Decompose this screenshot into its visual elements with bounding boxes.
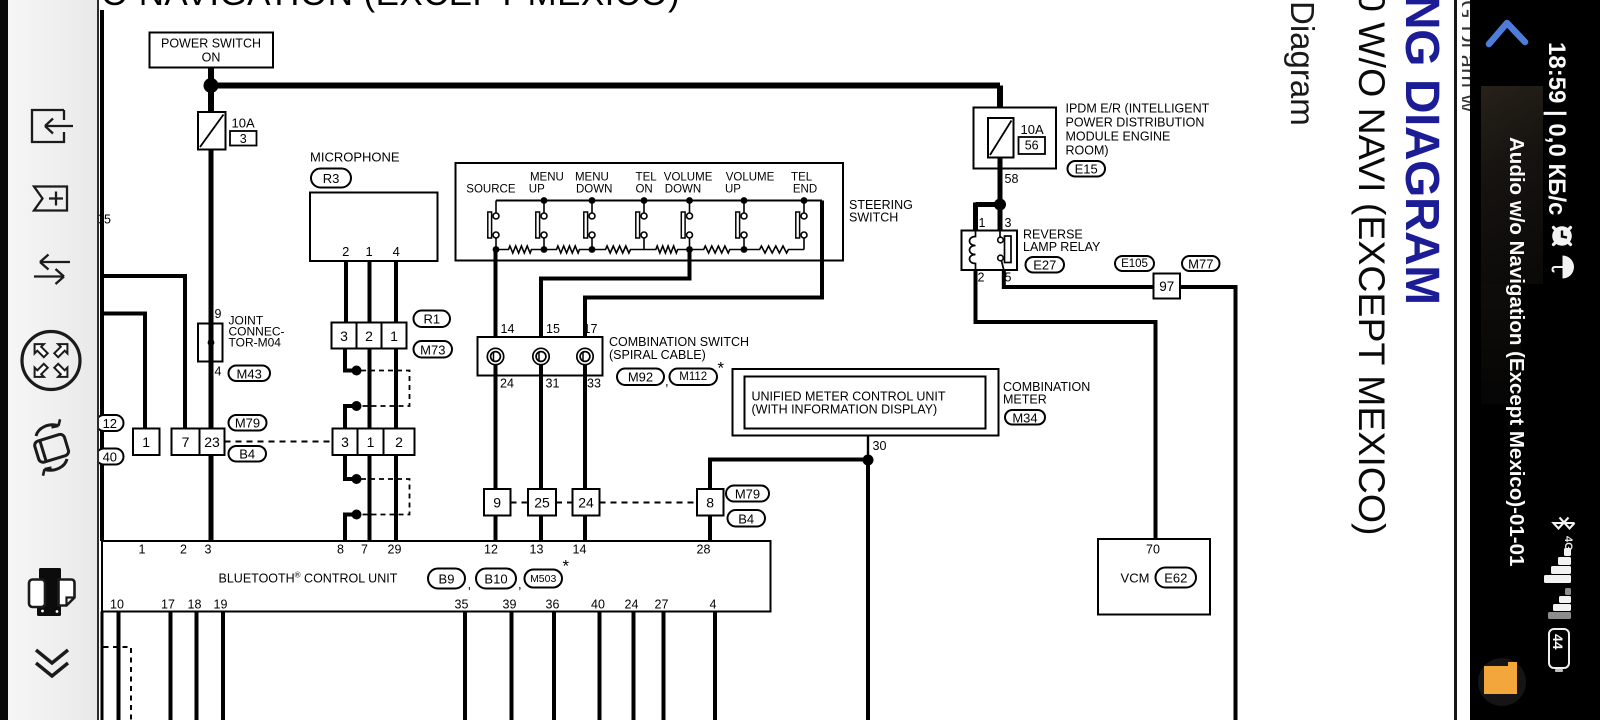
steering switch label: [849, 198, 913, 212]
connector E62: [1156, 568, 1197, 588]
wire TEL END output to spiral cable pin 17: [585, 201, 822, 350]
svg-text:40: 40: [591, 598, 605, 612]
svg-text:VOLUME: VOLUME: [664, 172, 713, 184]
combination switch spiral cable box: [478, 337, 603, 376]
svg-text:B4: B4: [738, 511, 754, 526]
joint connector M04 box: [198, 324, 223, 362]
svg-text:B10: B10: [484, 572, 507, 587]
wire bluetooth output down: [662, 612, 666, 720]
connector M73: [414, 341, 453, 358]
connector B4: [728, 510, 766, 527]
svg-text:2: 2: [365, 328, 373, 344]
svg-text:VOLUME: VOLUME: [726, 172, 775, 184]
dashed connector outline: [361, 479, 410, 515]
spiral cable contact: [487, 348, 503, 364]
wire bluetooth output down: [510, 612, 514, 720]
wire box 8 up: [708, 458, 712, 490]
connector cell 1: [133, 429, 160, 456]
svg-text:10A: 10A: [232, 116, 255, 131]
wire bluetooth output down: [552, 612, 556, 720]
rotated margin text: Diagram: [1283, 1, 1321, 126]
pin 17: [584, 322, 598, 336]
junction top rail: [801, 197, 808, 204]
power switch box: [150, 33, 274, 68]
svg-text:9: 9: [215, 307, 222, 321]
icon import page: [32, 110, 73, 142]
unified meter control unit inner box: [745, 377, 986, 429]
svg-text:56: 56: [1025, 139, 1039, 153]
wire main power bus: [208, 83, 1000, 89]
wire power switch to fuse: [208, 68, 214, 113]
svg-text:POWER DISTRIBUTION: POWER DISTRIBUTION: [1066, 116, 1205, 130]
connector E105: [1115, 256, 1154, 271]
svg-text:R3: R3: [323, 171, 340, 186]
svg-text:4: 4: [710, 598, 717, 612]
fuse number box 56: [1019, 137, 1046, 154]
svg-text:*: *: [563, 557, 570, 576]
wire to bluetooth pin 14: [583, 516, 587, 542]
wire down to connector cell 7: [183, 274, 187, 430]
junction top rail: [541, 197, 548, 204]
bluetooth control unit label: [219, 570, 398, 586]
svg-text:30: 30: [873, 439, 887, 453]
svg-text:33: 33: [587, 377, 601, 391]
wire to bluetooth pin 7: [368, 455, 372, 541]
svg-text:M34: M34: [1012, 410, 1037, 425]
svg-text:MENU: MENU: [575, 172, 609, 184]
connector R1: [414, 311, 451, 328]
status bar panel: [1470, 0, 1600, 720]
bluetooth unit top pin numbers: [139, 543, 711, 557]
connector M503: [525, 570, 563, 588]
switch VOLUME DOWN: [681, 201, 692, 250]
icon swap pages: [34, 255, 70, 285]
svg-text:36: 36: [546, 598, 560, 612]
joint connector dot: [208, 339, 215, 346]
pin 1: [979, 216, 986, 230]
pin label 05 (cut): [97, 213, 111, 227]
junction top rail: [589, 197, 596, 204]
asterisk: [718, 359, 725, 378]
switch TEL END: [796, 201, 807, 250]
svg-text:28: 28: [697, 543, 711, 557]
cut-off rotated text fragments of next column: [1462, 0, 1470, 700]
battery 44: [1548, 628, 1570, 669]
svg-text:1: 1: [365, 244, 372, 259]
pin 31: [546, 377, 560, 391]
resistor between SOURCE and MENU UP: [496, 246, 544, 253]
svg-text:12: 12: [103, 416, 117, 431]
svg-text:24: 24: [500, 377, 514, 391]
svg-text:(WITH INFORMATION DISPLAY): (WITH INFORMATION DISPLAY): [752, 403, 938, 417]
pin 30: [873, 439, 887, 453]
wire bus into IPDM: [997, 86, 1003, 119]
wire from in-line connector: [345, 406, 353, 430]
microphone R3 box: [310, 193, 438, 262]
svg-text:9: 9: [493, 495, 501, 511]
wire bluetooth output down: [221, 612, 225, 720]
wire bluetooth output down: [195, 612, 199, 720]
wire to bluetooth pin 28: [708, 516, 712, 542]
svg-text:10A: 10A: [1021, 122, 1044, 137]
connector cell 9: [484, 489, 511, 516]
svg-text:15: 15: [546, 322, 560, 336]
VCM box: [1098, 539, 1210, 615]
wire splice 97 down off-page: [1180, 287, 1236, 720]
unified meter control unit outer box: [733, 369, 999, 436]
icon collapse chevrons: [36, 650, 68, 676]
wire joint connector to cell 23: [209, 362, 214, 430]
app title rotated: [1504, 137, 1528, 566]
connector cell 8: [697, 489, 724, 516]
content right border line: [1454, 0, 1457, 720]
connector M12 (cut oval): [96, 415, 124, 431]
wire fuse to joint connector: [209, 150, 214, 326]
svg-text:TOR-M04: TOR-M04: [229, 336, 282, 350]
wire VOLUME DOWN output to spiral cable pin 15: [541, 250, 690, 350]
page heading (cut off at top): O NAVIGATION (EXCEPT MEXICO): [101, 0, 680, 11]
junction top rail: [641, 197, 648, 204]
svg-text:1: 1: [367, 434, 375, 450]
svg-text:B4: B4: [239, 447, 255, 462]
spiral cable contact: [577, 348, 593, 364]
svg-text:M112: M112: [679, 371, 707, 383]
wire pin 30 lead: [867, 436, 869, 459]
resistor between TEL ON and VOLUME DOWN: [644, 246, 690, 253]
wire relay pin 5 to splice 97: [1004, 270, 1154, 287]
switch MENU DOWN: [584, 201, 595, 250]
icon rotate page: [34, 433, 70, 463]
svg-text:58: 58: [1005, 172, 1019, 186]
pin 5: [1005, 271, 1012, 285]
svg-text:TEL: TEL: [636, 172, 658, 184]
wire branch to relay coil: [976, 202, 1001, 207]
svg-text:ON: ON: [635, 184, 652, 196]
toolbar panel: [8, 0, 99, 720]
svg-text:1: 1: [979, 216, 986, 230]
wire bluetooth output down: [463, 612, 467, 720]
junction bottom rail: [686, 246, 693, 253]
svg-text:,: ,: [468, 577, 472, 592]
svg-text:M43: M43: [237, 366, 262, 381]
left black edge strip: [0, 0, 8, 720]
svg-text:25: 25: [534, 495, 550, 511]
rotated margin title: NG DIAGRAM (blue): [1394, 0, 1449, 305]
connector cell 97: [1154, 274, 1181, 299]
pin 58: [1005, 172, 1019, 186]
connector B40 (cut oval): [96, 449, 124, 465]
wire left edge down: [101, 612, 104, 720]
connector M77: [1182, 256, 1220, 272]
svg-text:VCM: VCM: [1121, 571, 1150, 586]
wire straight cell 1: [394, 349, 398, 431]
svg-text:ROOM): ROOM): [1066, 143, 1109, 157]
svg-text:4: 4: [215, 365, 222, 379]
svg-text:,: ,: [665, 374, 669, 389]
svg-text:M77: M77: [1188, 257, 1213, 272]
svg-text:UP: UP: [529, 184, 545, 196]
wire mic pin1: [368, 261, 372, 324]
orange screenshot square: [1478, 658, 1526, 706]
in-line connector terminal: [352, 474, 362, 484]
microphone label: [310, 150, 400, 165]
wire bluetooth output down: [169, 612, 173, 720]
svg-text:DOWN: DOWN: [665, 184, 701, 196]
svg-text:METER: METER: [1003, 393, 1047, 407]
svg-text:13: 13: [530, 543, 544, 557]
svg-text:24: 24: [578, 495, 594, 511]
svg-text:70: 70: [1146, 543, 1160, 557]
wire bluetooth output down: [713, 612, 717, 720]
reverse lamp relay box: [962, 231, 1018, 271]
bluetooth control unit box: [102, 541, 771, 612]
wire relay pin 2 to VCM pin 70: [976, 270, 1156, 539]
connector box 3 2 1: [332, 323, 407, 349]
wire mic pin4: [394, 261, 398, 324]
svg-text:MENU: MENU: [530, 172, 564, 184]
svg-text:1: 1: [142, 434, 150, 450]
wire bluetooth output down: [117, 612, 121, 720]
connector cell 25: [528, 489, 556, 516]
svg-text:DOWN: DOWN: [576, 184, 612, 196]
fuse value label 10A: [232, 116, 255, 131]
svg-text:IPDM E/R (INTELLIGENT: IPDM E/R (INTELLIGENT: [1066, 102, 1210, 116]
svg-text:M73: M73: [420, 342, 445, 357]
wire to bluetooth pin 29: [394, 455, 398, 541]
relay coil: [970, 231, 976, 271]
svg-text:,: ,: [518, 577, 522, 592]
fuse value label 10A: [1021, 122, 1044, 137]
svg-text:4: 4: [393, 244, 400, 259]
wire fuse 56 down: [998, 158, 1003, 233]
svg-text:(SPIRAL CABLE): (SPIRAL CABLE): [609, 348, 706, 362]
svg-text:POWER SWITCH: POWER SWITCH: [161, 37, 261, 51]
switch MENU UP: [536, 201, 547, 250]
svg-text:19: 19: [214, 598, 228, 612]
junction bottom rail: [541, 246, 548, 253]
wire left vertical feed: [100, 10, 104, 541]
wire branch to pin 2: [102, 274, 185, 278]
svg-text:M79: M79: [235, 416, 260, 431]
svg-text:3: 3: [340, 328, 348, 344]
svg-text:97: 97: [1159, 279, 1174, 294]
in-line connector terminal: [352, 366, 362, 376]
dashed shield wire: [104, 647, 132, 720]
bluetooth icon: [1551, 510, 1577, 536]
svg-text:8: 8: [337, 543, 344, 557]
resistor between VOLUME UP and TEL END: [744, 246, 804, 253]
wire to bluetooth pin 8: [345, 515, 353, 542]
dashed connector link: [511, 502, 529, 504]
4G label: [1562, 536, 1574, 551]
in-line connector terminal: [352, 401, 362, 411]
connector M34: [1005, 410, 1045, 425]
svg-text:14: 14: [501, 322, 515, 336]
reverse lamp relay label: [1023, 228, 1083, 242]
fuse number box 3: [230, 131, 257, 146]
svg-text:3: 3: [341, 434, 349, 450]
junction node pin 30: [863, 455, 874, 466]
resistor between VOLUME DOWN and VOLUME UP: [690, 246, 745, 253]
svg-text:35: 35: [455, 598, 469, 612]
pin 24: [500, 377, 514, 391]
junction relay feed: [994, 199, 1006, 211]
svg-text:17: 17: [161, 598, 175, 612]
connector B9: [428, 569, 465, 589]
svg-text:2: 2: [978, 271, 985, 285]
wire to bluetooth pin 13: [539, 516, 543, 542]
dashed connector link: [225, 441, 333, 443]
mic pin 4: [393, 244, 400, 259]
connector B4: [229, 446, 267, 462]
pin 2: [978, 271, 985, 285]
relay contact: [998, 231, 1011, 271]
pin 70: [1146, 543, 1160, 557]
svg-text:23: 23: [204, 434, 220, 450]
junction bottom rail: [741, 246, 748, 253]
umbrella icon: [1549, 254, 1575, 282]
bluetooth unit bottom pin numbers: [110, 598, 716, 612]
wire down to connector cell 1: [143, 312, 147, 430]
svg-text:E15: E15: [1075, 162, 1098, 177]
alarm clock icon: [1550, 224, 1576, 250]
pin 14: [501, 322, 515, 336]
connector E27: [1026, 257, 1065, 273]
svg-text:39: 39: [503, 598, 517, 612]
switch SOURCE: [488, 201, 499, 250]
resistor between MENU UP and MENU DOWN: [544, 246, 592, 253]
svg-text:TEL: TEL: [791, 172, 813, 184]
svg-text:END: END: [793, 184, 817, 196]
svg-text:10: 10: [110, 598, 124, 612]
rotated margin text: 0 W/O NAVI (EXCEPT MEXICO): [1350, 0, 1393, 536]
svg-text:M79: M79: [735, 487, 760, 502]
wire to bluetooth pin 12: [494, 516, 498, 542]
wire to meter junction: [710, 458, 866, 462]
in-line connector terminal: [352, 510, 362, 520]
wire bluetooth output down: [632, 612, 636, 720]
svg-text:2: 2: [180, 543, 187, 557]
junction bottom rail: [493, 246, 500, 253]
svg-text:M503: M503: [530, 573, 556, 585]
fuse 10A no.3: [198, 112, 226, 150]
mic pin 2: [342, 244, 349, 259]
IPDM label: [1066, 102, 1210, 116]
wire bluetooth output down: [598, 612, 602, 720]
svg-text:E105: E105: [1121, 258, 1148, 270]
signal bars 2: [1548, 588, 1574, 620]
status time text: [1542, 42, 1570, 215]
svg-text:SOURCE: SOURCE: [466, 184, 516, 196]
svg-text:SWITCH: SWITCH: [849, 211, 898, 225]
joint connector label: [229, 314, 264, 328]
pin 33: [587, 377, 601, 391]
resistor between MENU DOWN and TEL ON: [592, 246, 644, 253]
combination switch label: [609, 335, 749, 349]
connector B10: [476, 569, 516, 589]
icon add summary: [34, 187, 67, 211]
wire branch to pin 1: [102, 312, 145, 316]
svg-text:7: 7: [361, 543, 368, 557]
svg-text:MODULE ENGINE: MODULE ENGINE: [1066, 130, 1171, 144]
svg-text:R1: R1: [423, 312, 440, 327]
icon print/pages: [37, 568, 61, 616]
svg-text:1: 1: [390, 328, 398, 344]
svg-text:M92: M92: [628, 370, 653, 385]
pin 4: [215, 365, 222, 379]
wire spiral cable 33 to box 24: [583, 365, 587, 490]
wire SOURCE output to spiral cable pin 14: [494, 250, 498, 350]
pin 15: [546, 322, 560, 336]
connector E15: [1068, 161, 1106, 177]
svg-text:*: *: [718, 359, 725, 378]
svg-text:B9: B9: [439, 572, 455, 587]
svg-text:17: 17: [584, 322, 598, 336]
asterisk: [563, 557, 570, 576]
wire to in-line connector: [345, 349, 353, 371]
wire junction down off-page: [866, 460, 870, 720]
switch VOLUME UP: [736, 201, 747, 250]
connector M79: [726, 486, 769, 502]
wire spiral cable 24 to box 9: [494, 365, 498, 490]
connector cells 7 23: [172, 429, 225, 456]
svg-text:2: 2: [342, 244, 349, 259]
fuse 10A no.56: [988, 118, 1014, 158]
svg-text:40: 40: [103, 450, 117, 465]
wire to relay pin 1: [973, 203, 978, 233]
svg-text:27: 27: [655, 598, 669, 612]
connector M92: [617, 369, 664, 386]
switch TEL ON: [636, 201, 647, 250]
svg-text:UNIFIED METER CONTROL UNIT: UNIFIED METER CONTROL UNIT: [752, 390, 946, 404]
connector R3: [311, 169, 351, 188]
back chevron (blue): [1483, 14, 1533, 54]
pin 3: [1005, 216, 1012, 230]
svg-text:24: 24: [625, 598, 639, 612]
svg-text:MICROPHONE: MICROPHONE: [310, 150, 400, 165]
svg-text:1: 1: [139, 543, 146, 557]
combination meter label: [1003, 380, 1090, 394]
wire mic pin2: [344, 261, 348, 324]
svg-text:E62: E62: [1164, 571, 1187, 586]
svg-text:29: 29: [388, 543, 402, 557]
steering switch box: [456, 163, 844, 261]
svg-text:18: 18: [188, 598, 202, 612]
wire to in-line connector: [345, 455, 353, 479]
svg-text:12: 12: [484, 543, 498, 557]
svg-text:8: 8: [706, 495, 714, 511]
wire spiral cable 31 to box 25: [539, 365, 543, 490]
svg-text:E27: E27: [1033, 258, 1056, 273]
connector M43: [229, 366, 271, 382]
svg-text:3: 3: [240, 132, 247, 146]
svg-text:ON: ON: [202, 51, 221, 65]
svg-text:COMBINATION SWITCH: COMBINATION SWITCH: [609, 335, 749, 349]
signal bars 1: [1544, 548, 1574, 586]
junction top rail: [741, 197, 748, 204]
svg-text:2: 2: [395, 434, 403, 450]
junction main bus: [204, 78, 219, 93]
mic pin 1: [365, 244, 372, 259]
pin 9: [215, 307, 222, 321]
junction top rail: [686, 197, 693, 204]
connector M112: [670, 369, 718, 386]
dashed connector link: [600, 502, 698, 504]
svg-text:14: 14: [573, 543, 587, 557]
spiral cable contact: [533, 348, 549, 364]
wallpaper photo fragment: [1481, 86, 1543, 284]
IPDM E/R box: [974, 108, 1057, 169]
